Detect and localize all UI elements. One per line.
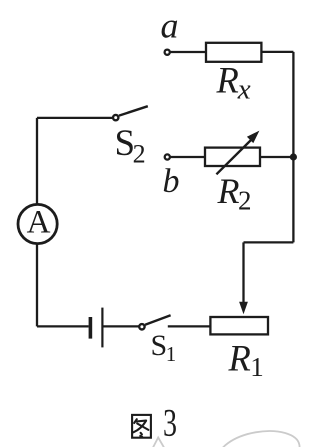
svg-text:Rx: Rx: [216, 60, 251, 106]
svg-text:3: 3: [163, 401, 177, 444]
svg-text:R1: R1: [228, 338, 264, 382]
svg-text:b: b: [163, 163, 180, 200]
svg-text:S1: S1: [151, 329, 177, 366]
svg-text:a: a: [161, 6, 179, 46]
svg-text:R2: R2: [217, 171, 252, 216]
svg-text:A: A: [27, 205, 51, 241]
svg-text:S2: S2: [115, 123, 146, 169]
